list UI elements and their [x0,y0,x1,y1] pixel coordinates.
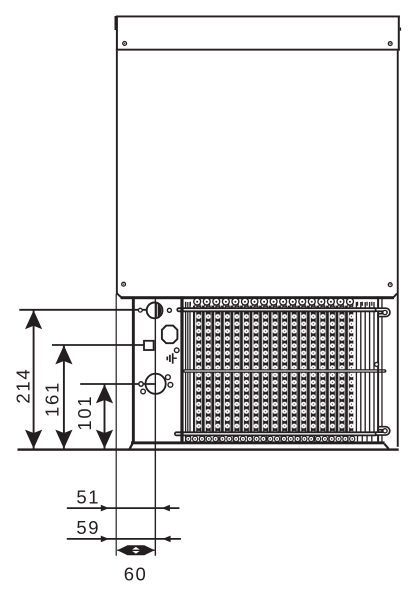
coil right inner line [381,298,382,442]
svg-text:161: 161 [42,381,63,417]
condenser fin field [193,306,353,432]
dimension 51 line [67,507,180,509]
dimension 60 line and darts [117,549,154,551]
drain fitting circle [146,374,166,394]
small ring below-left of drain [141,389,146,394]
dimension 214 line [33,310,35,450]
inlet fitting shaded segment [158,304,161,317]
leader line 214 (to water inlet) [19,309,147,311]
small ring right of inlet [167,308,171,312]
body bottom-left chamfer [117,293,122,297]
small ring on 101 leader [139,382,143,386]
lower-right chamfer to base [384,444,388,449]
small ring top-right of drain [166,375,171,380]
coil right plain fin lines [355,302,357,434]
coil right frame bar [377,296,379,443]
small ring on 214 leader [138,308,142,312]
svg-text:59: 59 [76,517,100,538]
small ring right of drain [168,382,173,387]
inlet fitting inner chord line [156,304,158,318]
top tube [176,307,378,312]
screw top-right [388,42,392,46]
svg-text:60: 60 [124,563,148,584]
body bottom-right chamfer [394,294,398,298]
top-right tube U-bend [377,310,389,315]
hex nut (octagon) [162,326,178,344]
fin top stubs [186,302,372,306]
ground symbol [173,357,177,359]
left edge extension line [115,294,117,556]
bottom tube [174,431,378,436]
svg-text:214: 214 [13,368,34,404]
small ring below nut [174,348,179,353]
dimension 161 line [63,345,65,450]
body left edge [116,51,118,294]
dimension 101 line [104,384,106,450]
middle tube [183,369,386,373]
svg-text:101: 101 [74,395,95,431]
coil left frame bar [180,296,183,443]
top row of tube bend circles [194,298,201,305]
body right edge / right side wall [397,51,399,447]
base plinth line [18,448,399,450]
leader line 101 (to drain) [80,383,156,385]
leader line 161 (to square fitting) [52,344,144,346]
dimension 59 line [67,538,181,540]
top panel left hinge tick [115,16,117,30]
fin bottom stubs [186,436,372,441]
svg-text:51: 51 [76,487,100,508]
water inlet fitting circle [147,303,163,319]
lower-left chamfer to base [130,443,133,449]
square fitting [144,341,154,350]
lower section bottom edge [131,441,385,444]
small ring above middle tube right end [375,362,379,366]
lower section left wall [132,298,135,442]
screw top-left [123,42,127,46]
coil left fin lines [185,302,187,434]
screw bottom-left of body [122,282,126,286]
top panel outline [116,16,400,18]
fittings centerline [154,298,156,556]
bottom-right tube U-bend [377,428,388,433]
screw bottom-right of body [388,283,392,287]
body bottom edge [121,296,394,299]
bottom row of tube bend circles [186,436,191,441]
top panel right hinge tick [400,28,401,31]
